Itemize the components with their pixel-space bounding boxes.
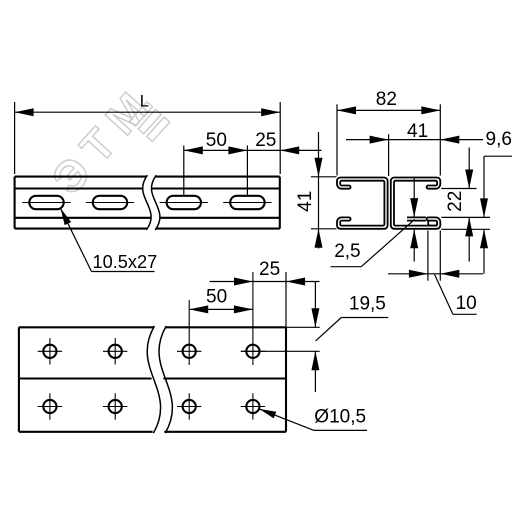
- dimension 9.6 line upper: [483, 156, 485, 217]
- dimension 10 arrow left: [409, 270, 428, 278]
- dimension 9.6 text: [486, 129, 512, 150]
- dimension 82 arrow right: [421, 106, 440, 114]
- slot hole 3 10.5x27: [167, 196, 201, 209]
- side view channel top edge: [15, 176, 280, 178]
- svg-text:22: 22: [445, 191, 466, 212]
- dimension 9.6 arrow lower: [480, 229, 488, 248]
- watermark ETM logo: [43, 76, 174, 212]
- dimension L arrow left: [15, 108, 34, 116]
- dimension 10 arrow right: [440, 270, 459, 278]
- dimension 10 extension line left: [427, 231, 429, 281]
- dimension L extension line left: [14, 102, 16, 174]
- top view plate right edge: [285, 327, 287, 432]
- dimension 41 vertical arrow top: [315, 158, 323, 177]
- dimension 41 vertical arrow bottom: [315, 229, 323, 248]
- dimension 2.5 arrow line lower: [413, 229, 415, 261]
- hole diameter leader: [259, 409, 367, 431]
- side view break line left: [143, 175, 151, 230]
- dimension 25 bottom arrow left: [234, 278, 253, 286]
- row1 centre witness line: [241, 350, 320, 352]
- hole diameter 10.5 row2 col4: [241, 393, 265, 419]
- dimension 25 bottom line: [210, 281, 320, 283]
- dimension 22 line lower: [468, 217, 470, 261]
- right channel bottom lip underside line: [428, 220, 437, 226]
- witness line lip top (22 bottom / 9.6 top): [441, 216, 490, 218]
- dimension 19.5 leader: [316, 318, 389, 341]
- witness line profile bottom (9.6 bottom): [441, 228, 490, 230]
- top view plate middle line: [19, 377, 286, 379]
- slot hole 2 10.5x27: [93, 196, 127, 209]
- cross-section left channel profile: [337, 178, 388, 229]
- svg-text:50: 50: [206, 130, 227, 151]
- svg-text:25: 25: [259, 259, 280, 280]
- top view plate top edge: [19, 326, 286, 328]
- top view break line right: [159, 326, 172, 433]
- dimension 50 arrow right: [228, 146, 247, 154]
- dimension 50 bottom line: [189, 308, 253, 310]
- side view channel right edge: [279, 177, 281, 229]
- hole diameter leader arrow: [259, 409, 276, 419]
- slot hole 1 center line: [22, 202, 70, 204]
- side view channel left edge: [14, 177, 16, 229]
- dimension 41 left witness bottom: [311, 228, 337, 230]
- dimension 2.5 text: [334, 241, 360, 262]
- hole diameter 10.5 row2 col3: [177, 393, 201, 419]
- svg-text:Ø10,5: Ø10,5: [314, 407, 366, 428]
- dimension 19.5 text: [349, 294, 386, 315]
- svg-text:10.5x27: 10.5x27: [93, 252, 158, 272]
- dimension 50-25 line: [184, 149, 322, 151]
- slot hole 1 10.5x27: [29, 196, 63, 209]
- hole col3 extended vertical line: [188, 300, 190, 365]
- dimension 22 line upper: [468, 148, 470, 189]
- thickness indication lines: [407, 217, 426, 220]
- dimension 25 text: [255, 130, 276, 151]
- dimension 10 text: [456, 293, 477, 314]
- dimension 19.5 arrow lower: [311, 351, 319, 370]
- dimension 82/41 extension line right: [439, 104, 441, 175]
- dimension 41 line: [346, 139, 483, 141]
- dimension 9.6 shoulder line: [484, 155, 512, 157]
- slot hole 2 center line: [86, 202, 134, 204]
- hole diameter 10.5 row2 col1: [38, 393, 62, 419]
- dimension 41 left witness top: [311, 176, 337, 178]
- top view break line left: [147, 326, 160, 433]
- dimension 25 bottom arrow right: [286, 278, 305, 286]
- dimension 50 extension line (slot3 center): [183, 146, 185, 195]
- dimension 50 arrow left: [184, 146, 203, 154]
- dimension 10 leader: [435, 275, 477, 315]
- hole diameter 10.5 row1 col2: [103, 338, 127, 364]
- dimension 2.5 arrow lower: [410, 229, 418, 248]
- top view plate left edge: [18, 327, 20, 432]
- svg-text:50: 50: [206, 287, 227, 308]
- dimension 82 arrow left: [337, 106, 356, 114]
- dimension 41 arrow left: [370, 136, 389, 144]
- dimension 50 bottom text: [206, 287, 227, 308]
- hole diameter 10.5 row1 col1: [38, 338, 62, 364]
- dimension 41 left text: [295, 191, 316, 212]
- dimension 82 line: [337, 109, 440, 111]
- dimension 22 text: [445, 191, 466, 212]
- plate right edge extension: [285, 272, 287, 327]
- svg-text:41: 41: [295, 191, 316, 212]
- dimension 82 text: [376, 89, 397, 110]
- svg-text:82: 82: [376, 89, 397, 110]
- dimension 41 center extension line: [388, 134, 390, 176]
- side view channel top fold line: [15, 187, 280, 189]
- slot size leader arrow: [61, 208, 72, 225]
- dimension 50 text: [206, 130, 227, 151]
- dimension 25 bottom text: [259, 259, 280, 280]
- hole diameter 10.5 row2 col2: [103, 393, 127, 419]
- svg-text:L: L: [140, 93, 149, 111]
- svg-text:2,5: 2,5: [334, 241, 360, 262]
- hole diameter 10.5 row1 col4: [241, 345, 265, 358]
- slot hole 4 center line: [223, 202, 271, 204]
- dimension 22 arrow lower: [465, 217, 473, 236]
- slot hole 4 10.5x27: [230, 196, 264, 209]
- dimension L line: [15, 111, 281, 113]
- cross-section right channel profile: [391, 178, 441, 229]
- dimension 50/25 extension line (slot4 center): [246, 146, 248, 195]
- hole diameter text: [314, 407, 366, 428]
- dimension 9.6 arrow upper: [480, 198, 488, 217]
- dimension L arrow right: [261, 108, 280, 116]
- slot size leader line: [61, 208, 155, 271]
- dimension 50 bottom arrow left: [189, 305, 208, 313]
- dimension 2.5 arrow line upper: [413, 179, 415, 217]
- svg-text:41: 41: [407, 121, 428, 142]
- slot hole 3 center line: [160, 202, 208, 204]
- dimension 25 arrow: [280, 146, 299, 154]
- dimension 19.5 line lower: [314, 351, 316, 392]
- witness line lip bottom (22 top): [441, 188, 476, 190]
- svg-text:25: 25: [255, 130, 276, 151]
- slot size text 10.5x27: [93, 252, 158, 272]
- dimension L text: [140, 93, 149, 111]
- dimension 10 line: [388, 273, 483, 275]
- dimension 50 bottom arrow right: [234, 305, 253, 313]
- dimension 22 arrow upper: [465, 170, 473, 189]
- hole col4 extended vertical line: [252, 272, 254, 365]
- dimension 2.5 arrow upper: [410, 198, 418, 217]
- dimension 2.5 leader: [331, 219, 415, 266]
- dimension 41 arrow right: [440, 136, 459, 144]
- dimension 41 top text: [407, 121, 428, 142]
- dimension 82 extension line left: [336, 104, 338, 175]
- side view break line right: [151, 175, 159, 230]
- dimension 19.5 line upper: [314, 282, 316, 328]
- svg-text:10: 10: [456, 293, 477, 314]
- dimension 41 vertical line: [318, 132, 320, 249]
- side view channel bottom edge: [15, 228, 280, 230]
- svg-text:9,6: 9,6: [486, 129, 512, 150]
- hole diameter 10.5 row1 col3: [177, 345, 201, 358]
- plate top edge witness: [286, 326, 320, 328]
- dimension L extension line right / 25 extension: [279, 102, 281, 174]
- side view channel bottom fold line: [15, 217, 280, 219]
- dimension 19.5 arrow upper: [311, 308, 319, 327]
- dimension 10 extension line right: [439, 231, 441, 281]
- top view plate bottom edge: [19, 431, 286, 433]
- svg-text:19,5: 19,5: [349, 294, 386, 315]
- dimension 9.6 line lower: [483, 229, 485, 273]
